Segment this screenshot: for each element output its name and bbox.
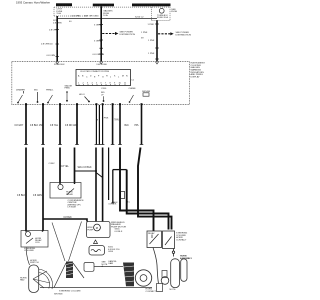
svg-text:HOT AT ALL: HOT AT ALL: [57, 4, 69, 7]
svg-text:PAD: PAD: [20, 279, 25, 282]
wire relay-to-pad: [26, 248, 29, 266]
lamp note caption: [102, 262, 108, 269]
svg-text:C200: C200: [101, 88, 107, 90]
svg-text:G200: G200: [108, 251, 114, 253]
svg-text:HI/LO: HI/LO: [79, 94, 85, 96]
horn pad fan lines: [33, 269, 53, 289]
W3 tick 3 + label: [155, 47, 159, 49]
svg-text:CONV: CONV: [49, 163, 56, 165]
W2 tick 4 + label: [99, 53, 103, 55]
column diagonals: [52, 222, 82, 262]
box caption right: [176, 233, 187, 242]
svg-text:0.8 ORN: 0.8 ORN: [47, 55, 56, 57]
svg-text:RELAY: RELAY: [66, 193, 74, 196]
svg-text:IND: IND: [34, 90, 38, 92]
svg-text:BLK: BLK: [125, 125, 130, 127]
svg-text:M: M: [122, 76, 124, 78]
contact caption: [146, 289, 157, 293]
switch SW3 HI/LO (cluster internal): [79, 94, 90, 103]
pump connector arrow: [94, 240, 98, 244]
cancel cam hatched bar: [66, 262, 73, 279]
svg-text:0.8 ORN: 0.8 ORN: [49, 29, 58, 31]
W2 tick 3: [99, 47, 103, 49]
circuit breaker CB symbol: [159, 8, 164, 13]
svg-text:DISTRIBUTION: DISTRIBUTION: [176, 34, 192, 36]
W2 tick 2: [99, 39, 103, 41]
relay coil symbol: [26, 232, 31, 237]
pump caption right: [111, 222, 126, 229]
switch SW1 (cluster internal): [16, 90, 25, 104]
svg-text:CAM: CAM: [108, 262, 113, 265]
svg-text:0.8 GRN: 0.8 GRN: [33, 195, 42, 197]
svg-text:0.8 BLK: 0.8 BLK: [109, 204, 117, 206]
splice caption: [180, 256, 192, 260]
splice link wire: [75, 170, 97, 172]
horn capsule 2: [181, 259, 187, 282]
svg-text:NOTE: NOTE: [170, 289, 177, 291]
turn signal / horn switch relay box (bottom-left): [21, 231, 48, 248]
W3 dashed arrow to S211: [158, 32, 174, 35]
svg-text:10 A: 10 A: [103, 14, 108, 17]
fuse block dashed rule: [54, 6, 170, 8]
K2 switch X: [150, 234, 159, 244]
svg-text:RELAY: RELAY: [148, 232, 155, 235]
K1 coil: [58, 184, 63, 189]
cluster connector strip C1/C2: [76, 70, 131, 86]
svg-text:FUSE: FUSE: [171, 11, 177, 13]
strip pin symbols row: [78, 75, 128, 79]
lamp L1 (cluster internal): [34, 90, 38, 103]
svg-text:CONTACT: CONTACT: [176, 239, 187, 242]
wire W9 (pair): [98, 105, 100, 145]
svg-text:CONTACT: CONTACT: [146, 290, 157, 293]
svg-text:1993 Camaro Horn/Washer: 1993 Camaro Horn/Washer: [16, 0, 50, 4]
circuit breaker labels: [157, 15, 168, 19]
svg-text:15 A: 15 A: [56, 12, 61, 15]
svg-text:STEERING COLUMN: STEERING COLUMN: [59, 291, 81, 293]
relay caption below: [24, 248, 35, 252]
steering wheel horn pad capsule: [29, 265, 39, 293]
wire W10: [102, 105, 104, 145]
wire W3 (right vertical, breaker to cluster): [156, 20, 158, 61]
horizontal link wire W-top: [57, 17, 157, 19]
wire W4 (cluster to C100): [25, 105, 27, 145]
cluster side label column: [191, 63, 206, 79]
svg-text:1 PNK: 1 PNK: [148, 53, 155, 55]
svg-text:0.8 YEL: 0.8 YEL: [50, 125, 59, 127]
cluster bottom pins: [25, 103, 143, 105]
wire W7: [76, 105, 78, 145]
splice junction dot: [95, 170, 97, 172]
svg-text:0.8 ORN 40: 0.8 ORN 40: [93, 54, 105, 56]
svg-text:0.8 ORN: 0.8 ORN: [72, 15, 81, 17]
fuse F5 value labels: [56, 8, 62, 15]
svg-text:PRNDL: PRNDL: [46, 90, 54, 92]
lower contact box: [157, 284, 163, 292]
housing wire: [94, 266, 123, 268]
arrow caption (see power distribution): [120, 32, 136, 36]
splice chain below stoplamp box: [172, 249, 174, 257]
horn capsule 1: [171, 259, 180, 288]
wire W14 (U right leg): [127, 170, 169, 230]
fuse block box (dashed): [54, 7, 88, 16]
clockspring caption: [108, 260, 118, 265]
K1 caption below: [68, 200, 85, 209]
wash pump motor wire branch: [43, 219, 87, 222]
switch SW4 (cluster internal): [129, 88, 137, 103]
slip ring annulus: [135, 270, 151, 286]
horn pad caption top: [30, 260, 39, 264]
valve coil symbol: [91, 249, 101, 251]
wire W13: [141, 105, 143, 145]
svg-text:DIMMER: DIMMER: [16, 90, 25, 92]
horn pad caption left: [20, 277, 27, 281]
svg-text:CHIME: CHIME: [129, 88, 137, 90]
svg-text:LH SIDE: LH SIDE: [68, 207, 77, 209]
power feed bar B1 (HOT AT ALL TIMES): [56, 3, 72, 7]
strip pin numbers row: [78, 83, 127, 85]
pump motor symbol: [94, 224, 101, 231]
svg-text:0.8 BLK: 0.8 BLK: [64, 217, 73, 219]
switch symbol inside: [165, 237, 172, 246]
relay feed curve: [153, 248, 159, 284]
svg-text:1 PNK: 1 PNK: [148, 40, 155, 42]
splice S331 caption: [115, 229, 123, 233]
power feed bar B3 (HOT IN RUN): [132, 4, 171, 7]
svg-text:PPL: PPL: [135, 125, 140, 127]
svg-text:SWITCH: SWITCH: [30, 262, 39, 264]
svg-text:M: M: [96, 226, 98, 230]
wire W7b: [74, 148, 76, 184]
svg-text:0.8 DK GRN: 0.8 DK GRN: [65, 125, 78, 127]
svg-text:1 PNK: 1 PNK: [141, 32, 148, 34]
svg-text:IGN FUSE: IGN FUSE: [97, 64, 108, 66]
svg-text:DISTRIBUTION: DISTRIBUTION: [120, 34, 136, 36]
svg-text:0.8 GRY: 0.8 GRY: [15, 125, 24, 127]
wire W2 (center vertical, bar B2 to cluster): [100, 6, 102, 61]
in-line diode D1: [121, 192, 125, 199]
svg-text:HOT AT ALL TIMES: HOT AT ALL TIMES: [94, 4, 113, 7]
relay labels inside: [35, 238, 42, 244]
svg-text:CLUSTER CONNECTOR PINS: CLUSTER CONNECTOR PINS: [80, 71, 110, 73]
K1 labels: [66, 192, 74, 196]
svg-text:3 ORN: 3 ORN: [94, 40, 101, 42]
wire W5: [42, 105, 44, 145]
power feed bar B2 (HOT AT ALL TIMES): [93, 4, 114, 7]
stoplamp switch box: [163, 231, 175, 249]
U-link top bar: [113, 169, 127, 171]
svg-text:PUMP: PUMP: [87, 229, 94, 231]
W11b end tick: [111, 202, 115, 204]
svg-text:S211 0.8 BLK: S211 0.8 BLK: [78, 167, 92, 169]
W1 tick 2: [56, 43, 59, 45]
svg-text:BLK: BLK: [114, 202, 119, 204]
fuse 2 labels right of W2: [103, 10, 113, 18]
wire W1 (left vertical, fuse to cluster): [56, 16, 58, 62]
wire W12b (elbow to horn relay): [120, 148, 154, 232]
svg-text:SHOWN: SHOWN: [54, 294, 63, 296]
svg-text:FUSE BLK: FUSE BLK: [54, 64, 65, 66]
svg-text:1C: 1C: [127, 202, 130, 204]
svg-text:S210 C2: S210 C2: [135, 16, 144, 18]
wire W8b: [95, 148, 97, 222]
svg-text:TAN: TAN: [114, 119, 119, 122]
relay terminals: [25, 230, 27, 232]
svg-text:0.8 BLK: 0.8 BLK: [17, 195, 26, 197]
wire W6: [59, 105, 61, 145]
horn relay K2 box: [147, 231, 162, 248]
wire label 0.8 ORN 40: [72, 15, 100, 17]
circuit breaker box (dashed): [152, 7, 171, 20]
wire W11: [112, 105, 114, 145]
W3 tick 4 + label: [155, 58, 159, 60]
wire W4b (below C100): [25, 148, 27, 232]
svg-text:SEE GROUND: SEE GROUND: [84, 15, 99, 17]
svg-text:0.8 BLK 150: 0.8 BLK 150: [30, 125, 43, 127]
wire W10b: [102, 148, 104, 222]
wire W12: [119, 105, 121, 145]
svg-text:0.8 BLK: 0.8 BLK: [115, 231, 123, 233]
washer pump box: [87, 222, 111, 238]
horn bracket box: [162, 271, 167, 278]
resistor R1 (cluster internal): [65, 84, 73, 101]
W2 tick 1: [99, 24, 103, 26]
svg-text:0.8 ORN 40: 0.8 ORN 40: [41, 44, 53, 46]
splice label S210: [53, 20, 62, 24]
entry connector marks: [56, 62, 159, 64]
svg-text:COIL: COIL: [35, 242, 41, 244]
connector row C100 (pass-through ticks): [24, 144, 143, 146]
svg-text:PNK: PNK: [104, 118, 109, 120]
svg-text:DISPLAY: DISPLAY: [191, 75, 201, 78]
W1 tick 3 + label C100: [56, 56, 59, 58]
relay K1 box (hazard flasher): [50, 183, 81, 199]
svg-text:1 PNK: 1 PNK: [148, 24, 155, 26]
wire W13b (elbow): [138, 148, 172, 230]
K1 switch: [67, 189, 74, 195]
W2 dashed arrow to S218: [102, 32, 118, 35]
svg-text:FUSE 20 A: FUSE 20 A: [157, 16, 168, 19]
W1 tick C1: [56, 28, 59, 30]
K1 terminals: [59, 183, 61, 185]
washer valve box: [89, 246, 105, 256]
indicator L2 (cluster internal): [101, 92, 105, 102]
strip bottom pin ticks: [79, 84, 125, 86]
svg-text:0.8 YEL: 0.8 YEL: [61, 166, 70, 168]
wire W5b: [42, 148, 44, 232]
wire W11b (ends at connector): [112, 170, 114, 203]
W3 tick 1 + label: [155, 23, 159, 25]
clockspring hatched wedge: [123, 263, 134, 287]
relay switch arm: [26, 238, 33, 244]
instrument cluster box: [12, 62, 190, 105]
ground splice caption: [108, 247, 120, 254]
pump labels: [87, 227, 94, 231]
horn trumpet circle: [161, 277, 169, 285]
fuse block note text: [171, 9, 177, 13]
module M1 (cluster internal): [142, 91, 151, 96]
turn signal housing box: [84, 263, 94, 272]
arrow caption 2: [176, 32, 192, 36]
svg-text:FEED: FEED: [65, 88, 71, 90]
wire W10c stub: [108, 148, 110, 201]
svg-text:J: J: [110, 77, 111, 79]
svg-text:COLUMN: COLUMN: [24, 250, 34, 252]
svg-text:HOT IN RUN, BULB TEST, START: HOT IN RUN, BULB TEST, START: [134, 4, 167, 7]
switch SW2 (cluster internal): [46, 90, 54, 104]
svg-text:3 ORN: 3 ORN: [94, 24, 101, 26]
wire W6b: [59, 148, 61, 184]
wire W8 (pair): [95, 105, 97, 145]
column baseline: [40, 287, 152, 289]
diagonal merge wire: [96, 173, 103, 178]
column housing diagonals: [54, 263, 84, 288]
